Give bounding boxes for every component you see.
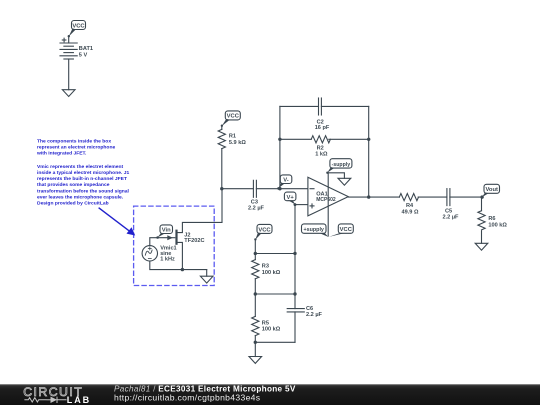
- Vout net flag: [482, 184, 499, 197]
- svg-text:R2: R2: [317, 145, 324, 151]
- resistor R5 100k: [252, 316, 281, 335]
- svg-text:R5: R5: [262, 320, 269, 326]
- VCC net flag (bias): [254, 224, 272, 240]
- V- net flag: [277, 175, 292, 190]
- svg-text:2.2 µF: 2.2 µF: [306, 312, 323, 318]
- Vout node junction: [480, 195, 483, 198]
- svg-text:TF202C: TF202C: [184, 238, 204, 244]
- svg-text:2.2 µF: 2.2 µF: [443, 215, 460, 221]
- resistor R4 49.9: [399, 194, 419, 216]
- svg-text:inside a typical electret micr: inside a typical electret microphone. J1: [37, 170, 129, 176]
- svg-text:V-: V-: [283, 178, 289, 184]
- svg-text:-supply: -supply: [332, 162, 351, 168]
- svg-text:VCC: VCC: [340, 227, 353, 233]
- svg-text:Vmic represents the electret e: Vmic represents the electret element: [37, 164, 124, 170]
- svg-text:MCP602: MCP602: [316, 197, 336, 203]
- ground (battery): [62, 90, 75, 97]
- battery BAT1: [60, 36, 93, 59]
- bias top wire: [255, 253, 295, 255]
- VCC flag above R1: [221, 111, 241, 127]
- wire V+ corner to op-amp: [295, 204, 308, 206]
- svg-text:represents the built-in n-chan: represents the built-in n-channel JFET: [37, 176, 127, 182]
- circuitlab logo: [23, 385, 91, 405]
- V+ vertical bias wire: [294, 205, 296, 309]
- wire R6 to ground: [481, 231, 483, 243]
- svg-text:49.9 Ω: 49.9 Ω: [402, 210, 419, 216]
- wire VCC to R1: [221, 126, 223, 130]
- svg-text:ever leaves the microphone cap: ever leaves the microphone capsule.: [37, 194, 124, 200]
- svg-text:R3: R3: [262, 264, 269, 270]
- V+ corner dot: [294, 203, 297, 206]
- ground (mic): [200, 276, 213, 283]
- resistor R1 5.9k: [218, 129, 246, 148]
- svg-text:100 kΩ: 100 kΩ: [488, 222, 507, 228]
- wire R4 to C5: [418, 196, 447, 198]
- wire bottom wire to ground: [254, 342, 256, 356]
- svg-text:VCC: VCC: [258, 227, 271, 233]
- wire Vmic top to gate: [150, 238, 169, 246]
- blue annotation text: [36, 139, 130, 207]
- resistor R6 100k: [478, 211, 507, 230]
- svg-text:The components inside the box: The components inside the box: [37, 139, 111, 145]
- resistor R3 100k: [252, 260, 281, 279]
- VCC flag battery: [68, 21, 86, 38]
- svg-text:2.2 µF: 2.2 µF: [248, 206, 265, 212]
- svg-text:R1: R1: [229, 134, 236, 140]
- capacitor C6 2.2uF: [287, 306, 322, 318]
- R2 row right wire: [329, 138, 369, 140]
- svg-text:http://circuitlab.com/cgtpbnb4: http://circuitlab.com/cgtpbnb433e4s: [114, 392, 260, 402]
- junction source: [181, 268, 184, 271]
- svg-text:100 kΩ: 100 kΩ: [262, 270, 281, 276]
- wire battery to ground: [68, 59, 70, 90]
- svg-text:C3: C3: [251, 199, 258, 205]
- node V- junction: [278, 187, 281, 190]
- wire C5 to Vout node: [450, 196, 482, 198]
- svg-text:with integrated JFET.: with integrated JFET.: [36, 151, 87, 157]
- svg-text:Vout: Vout: [485, 187, 498, 193]
- footer bar: [0, 384, 540, 405]
- transistor J2 JFET: [167, 189, 222, 270]
- feedback right vertical wire: [368, 106, 370, 197]
- wire C3 to op-amp V- input: [256, 188, 308, 190]
- wire Vout node to R6: [481, 197, 483, 211]
- svg-text:R6: R6: [488, 216, 495, 222]
- source Vmic1: [142, 246, 177, 263]
- wire node A to C3: [222, 188, 254, 190]
- svg-text:1 kHz: 1 kHz: [160, 257, 175, 263]
- wire Vmic bottom to source bottom rail: [150, 261, 207, 270]
- wire R1 to node A: [221, 149, 223, 189]
- svg-text:16 pF: 16 pF: [315, 125, 330, 131]
- svg-text:5 V: 5 V: [79, 52, 88, 58]
- bias bottom wire: [255, 341, 295, 343]
- VCC net flag (op-amp): [329, 224, 353, 237]
- svg-text:LAB: LAB: [67, 395, 91, 405]
- capacitor C3 2.2uF: [248, 180, 265, 211]
- svg-text:VCC: VCC: [72, 23, 85, 29]
- bias middle wire: [255, 293, 295, 295]
- svg-text:+supply: +supply: [303, 227, 324, 233]
- dashed microphone box: [134, 206, 215, 285]
- svg-text:Design provided by CircuitLab: Design provided by CircuitLab: [37, 201, 109, 207]
- wire -supply to ground arrow: [328, 173, 344, 179]
- output wire: [348, 196, 399, 198]
- blue arrow: [99, 208, 136, 236]
- -supply net flag: [326, 159, 352, 174]
- junction R2 left: [278, 138, 281, 141]
- ground (-supply): [338, 178, 351, 185]
- junction output: [367, 195, 370, 198]
- wire top wire to R3: [254, 254, 256, 260]
- wire R5 to bottom wire: [254, 336, 256, 343]
- svg-text:C6: C6: [306, 306, 313, 312]
- wire to mic ground: [206, 270, 208, 277]
- svg-text:C5: C5: [445, 208, 452, 214]
- feedback top wire to C2: [280, 105, 319, 107]
- svg-text:VCC: VCC: [227, 114, 240, 120]
- Vin net flag: [156, 225, 172, 239]
- feedback top wire C2 to right: [321, 105, 368, 107]
- svg-text:V+: V+: [286, 195, 294, 201]
- svg-text:100 kΩ: 100 kΩ: [262, 327, 281, 333]
- ground (bias): [249, 357, 262, 364]
- svg-text:transformation before the soun: transformation before the sound signal: [37, 188, 130, 194]
- op-amp supply pin line: [327, 173, 329, 236]
- R2 row left wire: [280, 138, 311, 140]
- V+ net flag: [284, 192, 296, 206]
- feedback left vertical wire: [279, 106, 281, 188]
- junction R2 right: [367, 138, 370, 141]
- resistor R2 1k: [311, 136, 330, 158]
- capacitor C5 2.2uF: [443, 189, 460, 221]
- ground (R6): [475, 243, 488, 250]
- wire R3 to middle wire: [254, 279, 256, 294]
- svg-text:that provides some impedance: that provides some impedance: [37, 182, 110, 188]
- wire VCC to bias top wire: [254, 239, 256, 253]
- node A junction: [220, 187, 223, 190]
- svg-text:Vin: Vin: [162, 228, 171, 234]
- capacitor C2 16pF: [315, 98, 330, 131]
- svg-text:5.9 kΩ: 5.9 kΩ: [229, 140, 246, 146]
- wire middle wire to R5: [254, 294, 256, 316]
- op-amp OA1 MCP602: [308, 177, 348, 216]
- svg-text:BAT1: BAT1: [79, 46, 93, 52]
- svg-text:represent an electret micropho: represent an electret microphone: [37, 145, 115, 151]
- svg-text:1 kΩ: 1 kΩ: [315, 152, 328, 158]
- svg-text:R4: R4: [406, 203, 414, 209]
- +supply net flag: [302, 224, 329, 237]
